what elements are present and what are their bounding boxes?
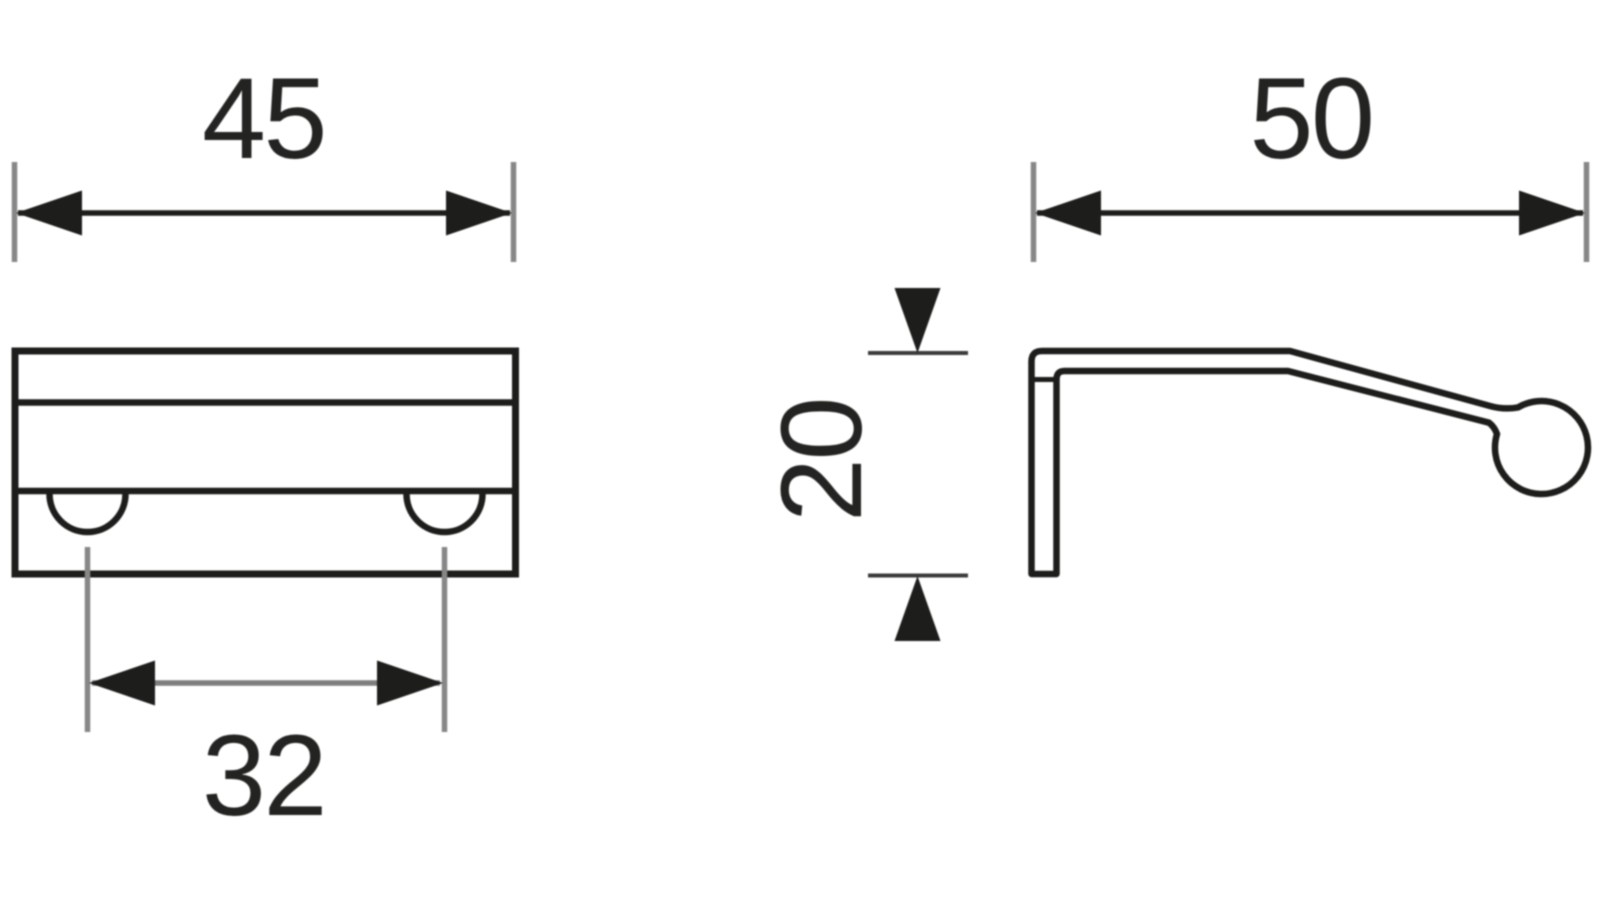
screw hole notch left: [50, 494, 126, 532]
arrowhead left 32: [89, 661, 155, 706]
extension line right of 32: [442, 547, 448, 732]
svg-text:45: 45: [202, 55, 325, 183]
tick line top of 20: [868, 351, 968, 355]
arrowhead left 50: [1035, 191, 1101, 236]
extension line left of 50: [1031, 162, 1037, 262]
dimension line 45: [18, 210, 510, 216]
side view profile outline: [1032, 351, 1588, 574]
arrowhead right 50: [1519, 191, 1585, 236]
arrowhead right 45: [446, 191, 512, 236]
dimension line 50: [1037, 210, 1583, 216]
tick line bottom of 20: [868, 574, 968, 578]
dimension line 32: [92, 680, 440, 686]
extension line left of 32: [85, 547, 91, 732]
front view horizontal edge line upper: [15, 399, 516, 406]
extension line right of 45: [511, 162, 517, 262]
front view rectangle outline: [15, 351, 516, 574]
bend line across mounting leg: [1032, 377, 1058, 382]
arrowhead left 45: [16, 191, 82, 236]
screw hole notch right: [407, 494, 483, 532]
front view horizontal edge line lower: [15, 488, 516, 495]
svg-text:32: 32: [202, 712, 325, 840]
arrowhead bottom 20 pointing up: [895, 576, 941, 641]
arrowhead right 32: [377, 661, 443, 706]
arrowhead top 20 pointing down: [895, 288, 941, 353]
svg-text:20: 20: [758, 399, 886, 522]
extension line left of 45: [12, 162, 18, 262]
extension line right of 50: [1584, 162, 1590, 262]
svg-text:50: 50: [1250, 55, 1373, 183]
